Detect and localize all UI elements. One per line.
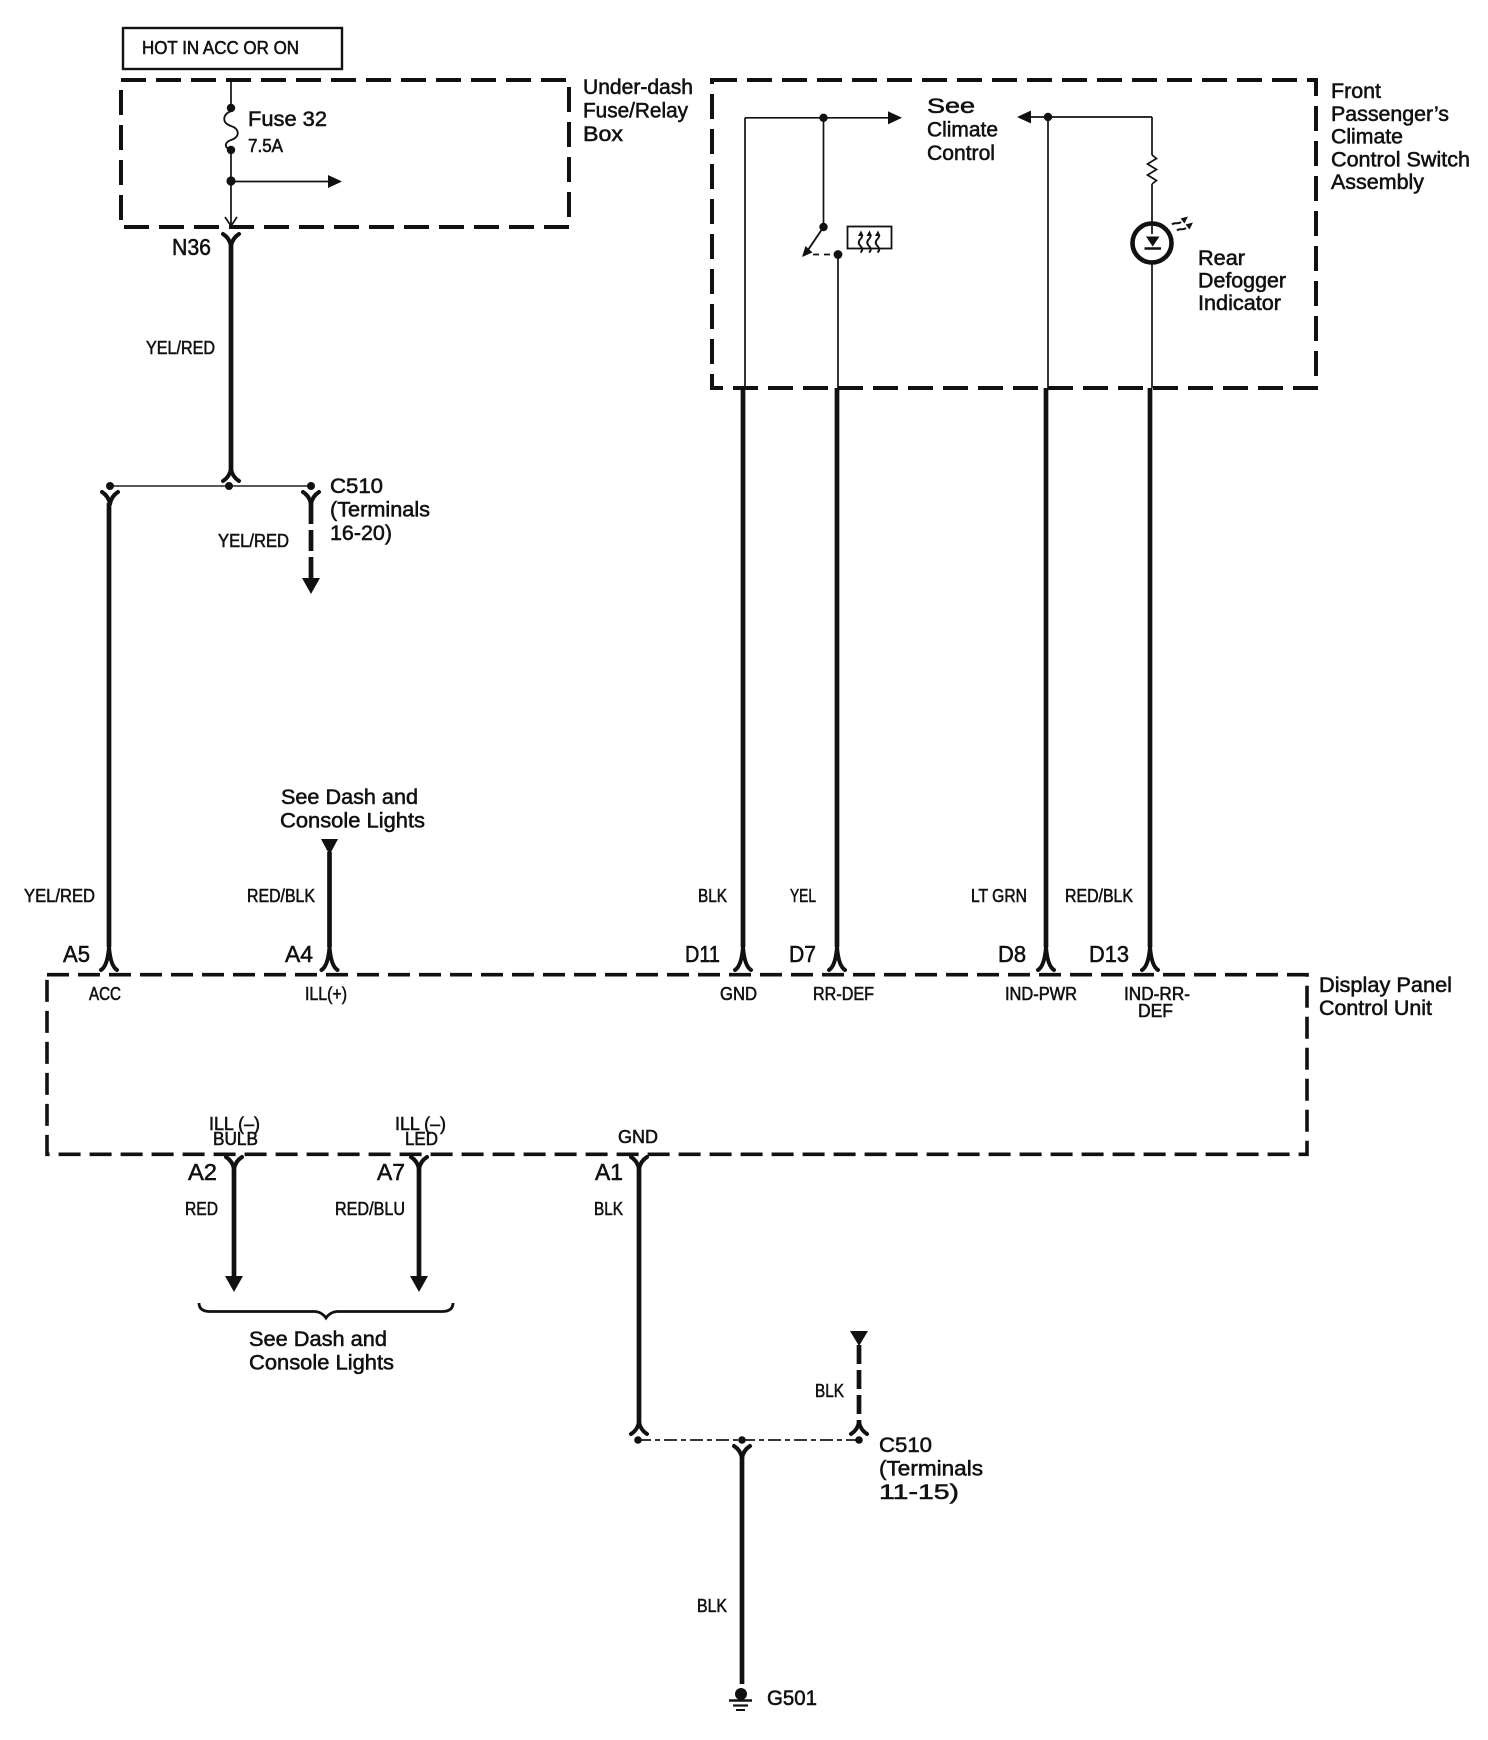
svg-text:DEF: DEF (1138, 1001, 1173, 1021)
junction node (226, 176, 235, 185)
connector below junction mid (crow-foot opening up) (734, 1446, 750, 1458)
wire D8 branch (inside box, thin) (1047, 117, 1049, 388)
connector (crow-foot opening down) at C510 junction (223, 469, 239, 481)
svg-text:RR-DEF: RR-DEF (813, 984, 874, 1004)
svg-text:See Dash and: See Dash and (249, 1328, 387, 1351)
connector below junction left (crow-foot opening up) (102, 492, 118, 504)
pin A2 connector (crow-foot opening up) (226, 1157, 242, 1169)
connector N36 (crow-foot opening up) (223, 234, 239, 246)
wire to see climate control (right arrow) (745, 111, 902, 124)
svg-text:A7: A7 (377, 1159, 405, 1185)
svg-text:LED: LED (405, 1129, 438, 1149)
pin D7 connector (crow-foot opening down) (829, 947, 845, 970)
svg-text:GND: GND (720, 984, 757, 1004)
wire RED/BLK thick to pin D13 (1148, 388, 1153, 947)
svg-text:Rear: Rear (1198, 247, 1245, 270)
wire from box top to fuse (230, 80, 232, 106)
svg-text:C510: C510 (879, 1434, 932, 1457)
label Rear Defogger Indicator (1198, 247, 1286, 315)
wire D7 branch (inside box, thin) (837, 255, 839, 389)
svg-text:D7: D7 (789, 941, 816, 967)
svg-text:BLK: BLK (698, 886, 727, 906)
node junction right (855, 1436, 863, 1444)
label See Dash and Console Lights (upper) (280, 786, 425, 833)
svg-text:See: See (927, 95, 975, 118)
pin D11 connector (crow-foot opening down) (735, 947, 751, 970)
wire to resistor (1151, 117, 1153, 155)
wire RED thick with arrow (225, 1168, 243, 1292)
svg-text:(Terminals: (Terminals (879, 1458, 983, 1481)
wire BLK thick to ground (740, 1457, 745, 1684)
wire junction to N36 with open arrowhead (225, 181, 237, 226)
svg-text:Control Switch: Control Switch (1331, 149, 1470, 172)
wire YEL/RED thick N36 to C510 junction (229, 245, 234, 470)
svg-text:G501: G501 (767, 1687, 817, 1710)
switch linkage dashed (813, 254, 832, 256)
svg-text:BLK: BLK (815, 1381, 844, 1401)
svg-text:Control: Control (927, 142, 995, 165)
front passenger's climate control switch assembly box (dashed) (712, 80, 1470, 388)
connector above junction right (crow-foot opening down) (851, 1422, 867, 1434)
svg-text:RED/BLK: RED/BLK (1065, 886, 1133, 906)
svg-text:Under-dash: Under-dash (583, 76, 693, 99)
node (fuse top) (227, 104, 235, 112)
svg-text:11-15): 11-15) (879, 1481, 959, 1504)
wire fuse to junction (230, 150, 232, 181)
svg-text:Front: Front (1331, 80, 1381, 103)
wire resistor to LED (1151, 184, 1153, 234)
svg-text:Display Panel: Display Panel (1319, 974, 1452, 997)
label box HOT IN ACC OR ON (123, 28, 342, 69)
svg-text:Console Lights: Console Lights (280, 810, 425, 833)
connector at lower junction (crow-foot opening down) (631, 1422, 647, 1434)
pin A7 connector (crow-foot opening up) (411, 1157, 427, 1169)
pin D8 connector (crow-foot opening down) (1038, 947, 1054, 970)
wire YEL thick to pin D7 (835, 388, 840, 947)
svg-text:A1: A1 (595, 1159, 623, 1185)
continuation triangle above A4 wire (321, 839, 338, 855)
svg-text:Climate: Climate (927, 119, 998, 142)
brace under A2/A7 arrows (199, 1303, 453, 1318)
ground G501 (729, 1688, 752, 1710)
label See Dash and Console Lights (lower) (249, 1328, 394, 1375)
wire from climate control (left arrow) (1017, 111, 1152, 124)
svg-text:RED: RED (185, 1199, 218, 1219)
svg-text:A5: A5 (63, 941, 90, 967)
fuse F32 element (squiggle) (224, 111, 238, 149)
svg-text:Passenger’s: Passenger’s (1331, 103, 1449, 126)
switch contact node (834, 250, 843, 259)
wire C510 junction bus (110, 485, 311, 487)
svg-text:Control Unit: Control Unit (1319, 997, 1432, 1020)
resistor (indicator dropping resistor) (1148, 155, 1157, 184)
svg-text:LT GRN: LT GRN (971, 886, 1027, 906)
svg-text:Defogger: Defogger (1198, 270, 1286, 293)
connector C510 label (lower) (879, 1434, 983, 1504)
node junction mid (225, 482, 233, 490)
svg-text:RED/BLU: RED/BLU (335, 1199, 405, 1219)
svg-text:Indicator: Indicator (1198, 292, 1281, 315)
node on climate line (819, 114, 827, 122)
continuation triangle above dashed BLK wire (850, 1331, 868, 1346)
svg-text:YEL/RED: YEL/RED (24, 886, 95, 906)
switch pivot node (819, 223, 827, 231)
svg-text:A4: A4 (285, 941, 313, 967)
svg-text:Assembly: Assembly (1331, 171, 1425, 194)
svg-text:D8: D8 (998, 941, 1026, 967)
svg-text:ILL(+): ILL(+) (305, 984, 347, 1004)
label See Climate Control (927, 95, 998, 165)
wire BLK dashed from triangle to junction (857, 1345, 862, 1423)
wire BLK thick A1 down (637, 1168, 642, 1423)
switch lever with arrowhead (802, 227, 824, 257)
svg-text:D11: D11 (685, 941, 720, 967)
under-dash fuse/relay box (dashed) (121, 76, 693, 227)
svg-text:BLK: BLK (594, 1199, 623, 1219)
pin A1 connector (crow-foot opening up) (631, 1157, 647, 1169)
svg-text:16-20): 16-20) (330, 522, 392, 545)
wire YEL/RED dashed to terminals 16-20 with arrow (302, 503, 320, 594)
svg-text:YEL/RED: YEL/RED (218, 531, 289, 551)
svg-text:A2: A2 (188, 1159, 217, 1185)
pin name ILL(-) LED (395, 1114, 446, 1149)
wire lower C510 junction bus (638, 1439, 859, 1441)
wire D11 branch (inside box, thin) (744, 118, 746, 388)
svg-text:See Dash and: See Dash and (281, 786, 418, 809)
pin name IND-RR-DEF (1124, 984, 1190, 1021)
wire LT GRN thick to pin D8 (1044, 388, 1049, 947)
svg-text:Fuse 32: Fuse 32 (248, 108, 327, 131)
svg-text:Fuse/Relay: Fuse/Relay (583, 100, 688, 123)
pin D13 connector (crow-foot opening down) (1142, 947, 1158, 970)
wire branch arrow to other circuits (231, 175, 342, 188)
svg-text:D13: D13 (1089, 941, 1129, 967)
pin name ILL(-) BULB (209, 1114, 260, 1149)
svg-text:BULB: BULB (213, 1129, 258, 1149)
pin A4 connector (crow-foot opening down) (322, 947, 338, 970)
LED rear defogger indicator (1133, 217, 1194, 263)
svg-text:HOT IN ACC OR ON: HOT IN ACC OR ON (142, 38, 299, 58)
connector below junction right (crow-foot opening down) (303, 492, 319, 504)
svg-text:RED/BLK: RED/BLK (247, 886, 315, 906)
rear defogger grid icon (848, 227, 892, 253)
svg-text:C510: C510 (330, 475, 383, 498)
wire D13 branch (inside box, thin) (1151, 262, 1153, 388)
wire RED/BLK thick to pin A4 (327, 852, 332, 947)
node junction left (106, 482, 114, 490)
pin A5 connector (crow-foot opening down) (101, 947, 117, 970)
svg-text:GND: GND (618, 1127, 658, 1147)
svg-text:(Terminals: (Terminals (330, 499, 430, 522)
node (fuse bottom) (227, 146, 235, 154)
display panel control unit box (dashed) (47, 974, 1452, 1154)
node on indicator line (1044, 113, 1052, 121)
node junction right (307, 482, 315, 490)
wire BLK thick to pin D11 (741, 388, 746, 947)
fuse value label Fuse 32 7.5A (248, 108, 327, 156)
wire YEL/RED thick to pin A5 (107, 503, 112, 947)
svg-text:IND-PWR: IND-PWR (1005, 984, 1077, 1004)
svg-text:ACC: ACC (89, 984, 121, 1004)
node junction mid (738, 1436, 746, 1444)
svg-text:Console Lights: Console Lights (249, 1352, 394, 1375)
svg-text:YEL: YEL (790, 886, 816, 906)
svg-text:Box: Box (583, 123, 624, 146)
svg-text:BLK: BLK (697, 1596, 727, 1616)
svg-text:YEL/RED: YEL/RED (146, 338, 215, 358)
wire RED/BLU thick with arrow (410, 1168, 428, 1292)
wire switch feed (823, 118, 825, 226)
svg-text:7.5A: 7.5A (248, 136, 283, 156)
node junction left (634, 1436, 642, 1444)
connector C510 label (330, 475, 430, 545)
svg-text:N36: N36 (172, 234, 211, 260)
svg-text:Climate: Climate (1331, 126, 1403, 149)
